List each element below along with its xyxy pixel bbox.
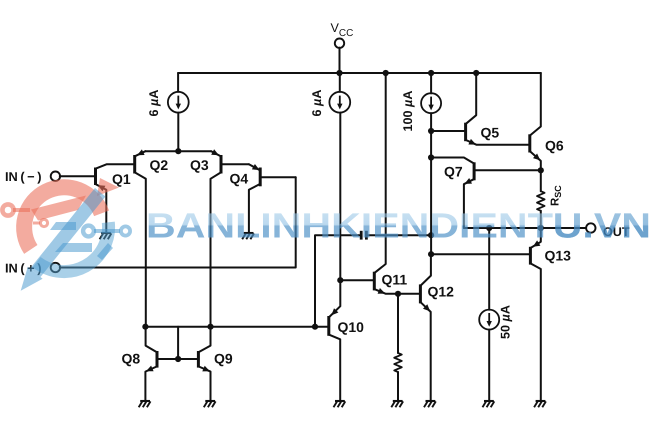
- wire Q11 base: [340, 279, 373, 281]
- node Q5 collector rail: [473, 70, 479, 76]
- node A emitters of Q2/Q3: [175, 148, 181, 154]
- Q8 emitter arrow: [146, 366, 154, 372]
- wire VCC top rail: [178, 72, 541, 74]
- node rail junction at 100uA: [428, 70, 434, 76]
- watermark logo blue diagonal band: [30, 188, 106, 277]
- wire rail to I3: [430, 73, 432, 93]
- svg-text:50 µA: 50 µA: [499, 305, 513, 339]
- wire I3 down column: [430, 113, 432, 254]
- watermark logo red small pad: [40, 219, 47, 226]
- watermark logo red trace: [13, 208, 30, 212]
- Q3 collector down: [211, 173, 221, 327]
- ground R1: [393, 400, 403, 402]
- svg-text:Q4: Q4: [230, 171, 249, 187]
- port IN(-) terminal: [51, 172, 60, 181]
- svg-text:Q2: Q2: [150, 157, 169, 173]
- wire RSC to OUT line: [540, 211, 542, 228]
- node Q11 base tap: [337, 277, 343, 283]
- wire Q6 emitter node to RSC: [540, 170, 542, 191]
- Q1 emitter diagonal: [96, 184, 107, 233]
- capacitor Cc plate right: [365, 231, 368, 240]
- Q6 collector up to rail: [530, 73, 541, 135]
- node VCC rail junction: [336, 70, 342, 76]
- Q7 collector to 100uA column: [431, 158, 474, 164]
- capacitor Cc plate left: [360, 231, 363, 240]
- current source I1 6uA: [168, 92, 189, 113]
- transistor Q2 bar: [133, 155, 136, 174]
- node Q3/Q9 collectors: [207, 324, 213, 330]
- Q11 emitter diagonal: [375, 289, 398, 294]
- Q4 emitter diagonal: [249, 164, 260, 170]
- Q6 emitter arrow: [533, 154, 540, 161]
- wire rail to I1: [177, 73, 179, 92]
- svg-text:Q13: Q13: [545, 248, 572, 264]
- node Q6 emitter / Q7 base: [538, 167, 544, 173]
- transistor Q9 bar: [197, 351, 200, 368]
- svg-text:Q3: Q3: [190, 157, 209, 173]
- svg-text:Q7: Q7: [444, 163, 463, 179]
- svg-text:Q12: Q12: [428, 284, 455, 300]
- watermark logo red pad ring: [2, 204, 13, 215]
- watermark logo blue pad ring center: [83, 226, 94, 237]
- watermark logo blue arc: [37, 222, 109, 271]
- transistor Q8 bar: [156, 351, 159, 368]
- ground Q8: [140, 400, 150, 402]
- transistor Q11 bar: [373, 272, 376, 291]
- Q12 emitter arrow: [423, 304, 430, 311]
- wire emitter node horizontal: [145, 150, 211, 152]
- wire cap left segment: [315, 235, 360, 327]
- transistor Q4 bar: [259, 168, 262, 187]
- wire rail to I2: [339, 73, 341, 92]
- svg-text:VCC: VCC: [331, 21, 354, 39]
- watermark logo blue band arrow tip: [21, 267, 43, 291]
- ground Q13: [536, 400, 546, 402]
- Q13 emitter up to OUT: [531, 228, 541, 248]
- node cap to Q12 collector column: [428, 232, 434, 238]
- Q4 collector down: [249, 184, 260, 233]
- ground 50uA source: [484, 400, 494, 402]
- Q6 emitter diagonal down: [530, 151, 541, 170]
- wire I1 to input pair node: [177, 113, 179, 152]
- node cap branch: [312, 324, 318, 330]
- watermark logo blue tail: [97, 243, 113, 260]
- Q12 emitter down: [421, 302, 431, 401]
- resistor R1: [394, 353, 402, 372]
- Q1 collector to Q2 base: [96, 164, 133, 168]
- node Q7 collector tap: [428, 154, 434, 160]
- Q3 base to Q4 emitter: [223, 163, 249, 165]
- transistor Q1 bar: [94, 168, 97, 186]
- Q13 collector down to ground: [531, 264, 541, 402]
- wire OUT line: [464, 227, 587, 229]
- transistor Q3 bar: [220, 155, 223, 174]
- Q11 emitter arrow: [378, 288, 386, 294]
- svg-text:Q1: Q1: [112, 171, 131, 187]
- current source I4 50uA: [479, 310, 499, 330]
- Q1 emitter arrow: [98, 185, 106, 191]
- transistor Q7 bar: [473, 162, 476, 180]
- Q13 emitter arrow: [533, 240, 541, 246]
- current source I2 6uA: [329, 92, 350, 113]
- Q3 emitter arrow: [211, 149, 219, 155]
- svg-text:Q9: Q9: [214, 351, 233, 367]
- Q4 base wire: [262, 176, 296, 178]
- wire base rail y=326.7: [145, 326, 327, 328]
- Q7 emitter diagonal down: [464, 179, 474, 228]
- watermark logo blue bottom bar: [55, 243, 92, 252]
- wire Q5 base from 100uA column: [431, 130, 464, 132]
- Q11 collector up to rail: [375, 73, 386, 273]
- watermark logo red arrowhead: [97, 178, 119, 196]
- svg-text:IN ( − ): IN ( − ): [5, 169, 41, 184]
- Q2 emitter diagonal to node: [135, 151, 145, 156]
- resistor RSC: [537, 191, 545, 211]
- transistor Q6 bar: [528, 134, 531, 152]
- power VCC terminal: [335, 39, 344, 48]
- Q8 emitter down: [145, 367, 156, 402]
- port IN(+) terminal: [51, 263, 60, 272]
- Q7 emitter arrow: [464, 178, 472, 184]
- ground Q10: [335, 400, 345, 402]
- wire Q8-Q9 base link: [159, 358, 198, 360]
- wire VCC stub: [339, 48, 341, 73]
- wire Q12 base: [398, 293, 419, 295]
- wire OUT line to I4: [488, 228, 490, 310]
- wire R1 to ground: [397, 372, 399, 401]
- ground Q1: [101, 232, 111, 234]
- Q10 emitter up diagonal: [329, 280, 340, 317]
- svg-text:Q11: Q11: [382, 271, 408, 287]
- node Q2/Q8 collectors: [142, 324, 148, 330]
- ground Q4: [244, 232, 254, 234]
- node Q11 emitter / Q12 base / resistor: [395, 291, 401, 297]
- current source I3 100uA: [421, 93, 441, 113]
- svg-text:6 µA: 6 µA: [310, 90, 324, 117]
- Q5 collector up to rail: [466, 73, 476, 124]
- wire Q12 collector to Q13 base: [431, 253, 529, 255]
- Q7 base wire to Q6 emitter: [476, 169, 541, 171]
- node Q11 collector rail: [383, 70, 389, 76]
- wire Q8 diode link down: [177, 327, 179, 359]
- watermark logo red bar: [31, 196, 86, 221]
- watermark logo blue mid bar: [50, 222, 76, 230]
- svg-text:Q10: Q10: [338, 319, 365, 335]
- transistor Q10 bar: [327, 316, 330, 336]
- Q9 emitter down: [199, 367, 211, 402]
- transistor Q5 bar: [464, 123, 467, 142]
- svg-text:100 µA: 100 µA: [401, 91, 415, 132]
- wire I2 down to Q11 base node: [339, 113, 341, 281]
- Q2 emitter arrow: [137, 149, 145, 155]
- wire node to resistor R1: [397, 294, 399, 353]
- node 50uA tap on OUT: [486, 225, 492, 231]
- Q9 collector up: [199, 327, 211, 352]
- wire I4 to ground: [488, 330, 490, 402]
- watermark logo red arc: [24, 187, 101, 249]
- transistor Q13 bar: [529, 247, 532, 265]
- wire IN(-) to Q1 base: [60, 175, 94, 177]
- watermark logo blue pad ring right: [121, 226, 130, 235]
- Q4 emitter arrow: [252, 164, 260, 170]
- node Q13 base tap: [428, 251, 434, 257]
- Q9 emitter arrow: [202, 366, 210, 372]
- watermark logo blue trace: [94, 229, 120, 233]
- wire cap right segment: [368, 234, 431, 236]
- Q8 collector up: [146, 327, 157, 352]
- Q5 emitter arrow: [468, 139, 476, 145]
- svg-text:6 µA: 6 µA: [147, 90, 161, 117]
- node RSC/Q13 on OUT: [538, 225, 544, 231]
- node Q5 base tap: [428, 128, 434, 134]
- ground Q12: [426, 400, 436, 402]
- node Q8/Q9 bases: [175, 356, 181, 362]
- Q3 emitter diagonal to node: [211, 151, 221, 156]
- Q2 collector down: [135, 173, 146, 327]
- Q10 collector down: [329, 335, 340, 401]
- svg-text:Q6: Q6: [545, 138, 564, 154]
- Q10 emitter arrow: [331, 308, 338, 315]
- wire IN(+) to Q4 base: [60, 177, 296, 267]
- svg-text:Q8: Q8: [122, 351, 141, 367]
- ground Q9: [205, 400, 215, 402]
- Q12 collector up: [421, 254, 431, 285]
- Q5 emitter diagonal: [466, 140, 528, 145]
- port OUT terminal: [586, 223, 595, 232]
- svg-text:RSC: RSC: [550, 185, 563, 206]
- svg-text:Q5: Q5: [481, 125, 500, 141]
- transistor Q12 bar: [419, 284, 422, 303]
